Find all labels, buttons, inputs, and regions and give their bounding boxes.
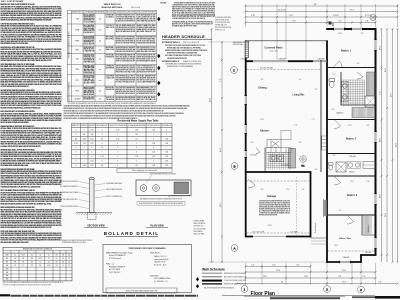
svg-text:5'-4": 5'-4" — [251, 265, 255, 267]
patio corner post — [245, 41, 248, 57]
svg-text:EDGE SECTION END BLOCKING CONT: EDGE SECTION END BLOCKING CONT PLATE WIT… — [1, 202, 53, 205]
svg-text:13'-6": 13'-6" — [263, 276, 267, 278]
grid bubble A — [231, 245, 238, 252]
svg-text:FLOOR END REQUIRED R602 W: FLOOR END REQUIRED R602 W — [215, 22, 230, 24]
svg-text:1 1/4: 1 1/4 — [165, 161, 168, 163]
bath1 tile floor — [342, 80, 366, 105]
svg-text:20'-2": 20'-2" — [268, 225, 272, 227]
svg-text:9'-6": 9'-6" — [379, 91, 381, 95]
wall: garage top — [245, 171, 311, 173]
svg-text:7'-6": 7'-6" — [259, 21, 263, 23]
svg-text:METHOD LIB SECTION: METHOD LIB SECTION — [84, 30, 95, 32]
svg-text:3'-8": 3'-8" — [367, 181, 370, 183]
keynote circle top right — [370, 15, 376, 21]
svg-text:Office / Den: Office / Den — [339, 238, 352, 240]
svg-text:WOOD OF: WOOD OF — [106, 97, 114, 99]
svg-text:5/8: 5/8 — [22, 258, 24, 260]
svg-text:1 1/4: 1 1/4 — [135, 129, 138, 131]
wall: bedroom2 bottom — [327, 153, 376, 155]
svg-text:2'-8": 2'-8" — [361, 33, 364, 35]
svg-text:8'-2": 8'-2" — [296, 265, 300, 267]
left dimension lines — [208, 28, 330, 263]
svg-text:1/2: 1/2 — [101, 147, 103, 149]
svg-text:SUPPORT CONT USE: SUPPORT CONT USE — [215, 30, 225, 32]
svg-text:6'-8": 6'-8" — [332, 109, 335, 111]
svg-text:3/4: 3/4 — [136, 134, 138, 136]
svg-text:R602 WITH METHOD CS CODE: R602 WITH METHOD CS CODE — [137, 47, 156, 49]
svg-text:SINK: SINK — [5, 279, 8, 281]
door swing bedroom3 — [334, 176, 341, 185]
bath2 shower xbox — [336, 162, 346, 172]
svg-text:DESIGN MIN GB BE: DESIGN MIN GB BE — [215, 20, 229, 22]
svg-text:CONT CS JOIST END END CS ROOF: CONT CS JOIST END END CS ROOF TOP THE PF… — [172, 16, 216, 18]
bracing table black diamond markers — [157, 17, 160, 97]
svg-text:EACH THE MIN BLOCKING ANCHOR D: EACH THE MIN BLOCKING ANCHOR DESIGN — [1, 121, 29, 124]
wall: bedroom3 bottom right — [360, 254, 376, 256]
svg-text:HB: HB — [6, 265, 8, 267]
room label dining — [258, 86, 267, 90]
svg-text:TO BOT: TO BOT — [106, 25, 114, 27]
svg-text:2x4: 2x4 — [31, 255, 33, 257]
left dimension labels — [209, 78, 222, 207]
kitchen counters — [266, 131, 291, 153]
dashed attic line living — [247, 69, 321, 71]
svg-text:CSB-4x8P: CSB-4x8P — [317, 58, 324, 60]
svg-text:21'-6": 21'-6" — [220, 202, 222, 207]
room label porch — [314, 223, 317, 233]
svg-text:7'-6": 7'-6" — [362, 276, 366, 278]
svg-text:2 1/2: 2 1/2 — [165, 165, 168, 167]
svg-text:Living Rm.: Living Rm. — [292, 94, 305, 97]
svg-text:19'-1": 19'-1" — [350, 10, 355, 12]
bollard section view post — [88, 177, 97, 219]
header schedule text — [162, 41, 207, 68]
svg-text:OCC IN OF: OCC IN OF — [84, 43, 95, 45]
svg-text:Residential Water Supply Pipe: Residential Water Supply Pipe Table — [117, 119, 159, 122]
top dimension line overall — [244, 4, 398, 60]
svg-text:3'-4": 3'-4" — [315, 169, 318, 171]
svg-text:4'-0": 4'-0" — [367, 125, 370, 127]
svg-text:BOT IRC: BOT IRC — [106, 39, 115, 41]
svg-text:1 1/2: 1 1/2 — [152, 156, 155, 158]
svg-text:3/4: 3/4 — [39, 265, 41, 267]
wall schedule title — [202, 267, 225, 271]
grid bubble B — [231, 163, 238, 170]
svg-text:2 1/2: 2 1/2 — [152, 143, 155, 145]
svg-text:Wall Schedule: Wall Schedule — [202, 267, 225, 271]
svg-text:USE STUD LIB IRC LIB: USE STUD LIB IRC LIB — [183, 42, 199, 44]
svg-text:DESIGN INTERIOR FOR: DESIGN INTERIOR FOR — [84, 89, 95, 91]
svg-text:Bedrm. 3: Bedrm. 3 — [347, 194, 358, 197]
wall: office bottom — [326, 261, 362, 263]
svg-text:2'-8": 2'-8" — [295, 125, 298, 127]
svg-text:2 1/2: 2 1/2 — [83, 138, 86, 140]
svg-text:SECTION THE CONN: SECTION THE CONN — [84, 38, 95, 40]
bottom dimension labels — [251, 265, 382, 284]
NOTE paragraph — [161, 2, 216, 28]
wall: bath1 bottom / walk-in top — [341, 104, 376, 106]
room label office den — [339, 238, 352, 240]
svg-text:CONT CONN FOR CS USE: CONT CONN FOR CS USE — [137, 17, 156, 19]
svg-text:WINDOWS -: WINDOWS - — [150, 275, 159, 277]
grid bubble C — [231, 67, 238, 74]
room label bedroom3 — [347, 194, 358, 197]
bath1 sinks — [342, 82, 349, 102]
svg-text:R301 - B UPLIFT BOARD: R301 - B UPLIFT BOARD — [1, 0, 24, 3]
svg-text:8'-0": 8'-0" — [272, 265, 276, 267]
kitchen laundry tile floor — [266, 152, 291, 169]
svg-text:5'-0": 5'-0" — [339, 210, 342, 212]
svg-text:5'-8": 5'-8" — [261, 189, 264, 191]
fridge hatch — [289, 149, 296, 169]
closet label bedroom3 — [367, 225, 370, 232]
svg-text:NOTE :: NOTE : — [161, 3, 168, 5]
svg-text:5'-10": 5'-10" — [251, 15, 255, 17]
walk-in label — [337, 113, 344, 115]
wall: covered patio top — [245, 40, 328, 42]
wall: bedroom3 bottom — [327, 214, 376, 216]
svg-text:A: A — [233, 246, 235, 250]
svg-text:1 1/4: 1 1/4 — [90, 161, 93, 163]
wall: right exterior — [375, 28, 377, 256]
svg-text:15'-8": 15'-8" — [385, 67, 387, 72]
mech water heater — [300, 156, 306, 168]
plan view caption — [146, 225, 168, 228]
water supply pipe table title — [117, 119, 159, 122]
svg-text:5'-4": 5'-4" — [339, 21, 342, 23]
svg-text:W/M: W/M — [6, 255, 9, 257]
svg-text:END INTERIOR PLATE TO STUD IN: END INTERIOR PLATE TO STUD IN WALL — [1, 42, 30, 45]
svg-text:PFH PANEL EDGE CONN R602 WALL: PFH PANEL EDGE CONN R602 WALL NAIL — [1, 164, 30, 167]
svg-text:BOLT FOR CONT: BOLT FOR CONT — [84, 97, 95, 99]
svg-text:BOLLARD DETAIL: BOLLARD DETAIL — [104, 231, 159, 236]
svg-text:3'-0": 3'-0" — [315, 89, 318, 91]
svg-text:U= .38 SHGC= .25: U= .38 SHGC= .25 — [154, 281, 167, 283]
room label living — [292, 94, 305, 97]
svg-text:1 1/4: 1 1/4 — [165, 143, 168, 145]
svg-text:under plywood R-38: under plywood R-38 — [154, 259, 168, 261]
bottom dimension lines — [236, 263, 399, 285]
svg-text:1 1/2: 1 1/2 — [83, 143, 86, 145]
svg-text:ANCHOR STUD MAX BRACED SHALL C: ANCHOR STUD MAX BRACED SHALL CONN USE OF… — [1, 106, 41, 109]
svg-text:INTERIOR WALLS: INTERIOR WALLS — [162, 60, 180, 63]
svg-text:1 1/4: 1 1/4 — [152, 165, 155, 167]
svg-text:use: use — [99, 29, 102, 31]
svg-text:BLOCKING PFH INTERIOR METHOD: BLOCKING PFH INTERIOR METHOD — [137, 91, 156, 93]
svg-text:11'-4": 11'-4" — [289, 15, 293, 17]
svg-text:EXTERIOR GB: EXTERIOR GB — [106, 57, 114, 59]
energy efficiency standards box — [103, 245, 192, 293]
wardrobe hatch in walk-in — [352, 108, 375, 118]
wall: center spine — [326, 40, 328, 262]
svg-text:BE END: BE END — [106, 37, 116, 39]
water supply table cells — [72, 124, 171, 167]
svg-text:1 1/4: 1 1/4 — [165, 138, 168, 140]
svg-text:IN WITH FLOOR ANCHOR ALL R602: IN WITH FLOOR ANCHOR ALL R602 MIN PER DE… — [1, 19, 52, 22]
svg-text:ROOF MIN: ROOF MIN — [37, 251, 45, 253]
svg-text:Bedrm. 1: Bedrm. 1 — [341, 50, 352, 53]
svg-text:9'-0": 9'-0" — [220, 78, 222, 82]
svg-text:2'-8": 2'-8" — [366, 21, 369, 23]
right dimension labels — [379, 45, 397, 217]
svg-text:USE MIN PER: USE MIN PER — [84, 67, 95, 69]
svg-text:1 1/2: 1 1/2 — [116, 129, 119, 131]
grid bubble 2 — [324, 286, 331, 293]
svg-text:Pantry: Pantry — [250, 154, 257, 157]
svg-text:9'-8": 9'-8" — [261, 79, 264, 81]
svg-text:3/4: 3/4 — [91, 134, 93, 136]
svg-text:5/8: 5/8 — [56, 265, 58, 267]
svg-text:9'-8": 9'-8" — [292, 21, 296, 23]
door swing pantry — [256, 148, 260, 154]
svg-text:1 1/4: 1 1/4 — [165, 152, 168, 154]
svg-text:Laundry: Laundry — [281, 165, 288, 167]
bracing methods table title — [102, 3, 141, 9]
pantry label — [250, 154, 257, 157]
room label bedroom1 — [341, 50, 352, 53]
wall: left exterior — [245, 40, 247, 237]
svg-text:CSB-4x8P: CSB-4x8P — [240, 58, 247, 60]
wall: hall west — [320, 60, 322, 172]
bracing methods table grid — [67, 10, 156, 101]
wall: garage right — [310, 171, 312, 237]
svg-text:1/2: 1/2 — [14, 265, 16, 267]
svg-text:TABLE R602.10.4: TABLE R602.10.4 — [104, 3, 122, 6]
bracing table rotated side label — [68, 31, 71, 102]
svg-text:5/8: 5/8 — [31, 261, 33, 263]
water table footer box — [117, 168, 172, 172]
svg-text:3/4: 3/4 — [75, 138, 77, 140]
svg-text:GB USE EXTERIOR: GB USE EXTERIOR — [84, 75, 95, 77]
svg-text:1 1/2: 1 1/2 — [90, 129, 93, 131]
wall: garage bottom — [245, 235, 311, 237]
bollard detail title — [104, 231, 159, 237]
header schedule title — [162, 34, 212, 39]
csb wall labels patio — [240, 58, 324, 60]
svg-text:1 1/4: 1 1/4 — [83, 165, 86, 167]
svg-text:12: 12 — [39, 261, 41, 263]
svg-text:4'-6": 4'-6" — [299, 142, 302, 144]
svg-text:2 1/2: 2 1/2 — [90, 143, 93, 145]
front door porch — [324, 199, 327, 217]
svg-text:R-13: R-13 — [22, 255, 25, 257]
wall: pantry east — [264, 148, 266, 173]
wall: office step — [360, 254, 362, 262]
svg-text:INTERIOR WSP: INTERIOR WSP — [20, 251, 28, 253]
svg-text:CSB-4x8P: CSB-4x8P — [349, 156, 356, 158]
svg-text:WC: WC — [6, 258, 8, 260]
svg-text:CS-WSP: CS-WSP — [74, 98, 82, 100]
svg-text:CS USE: CS USE — [28, 251, 36, 253]
svg-text:8'-4": 8'-4" — [338, 276, 342, 278]
svg-text:Bath 2: Bath 2 — [349, 170, 354, 173]
svg-text:1 1/2: 1 1/2 — [90, 165, 93, 167]
bottom left table cells — [4, 248, 72, 281]
bollard section leader labels — [60, 181, 122, 209]
door swing bedroom1 — [333, 61, 342, 68]
svg-text:GB WSP R602 PFH STUD GB EDGE L: GB WSP R602 PFH STUD GB EDGE LIB PLATE T… — [1, 59, 53, 62]
room label garage — [267, 194, 277, 198]
svg-text:1 1/4: 1 1/4 — [135, 156, 138, 158]
kitchen island — [267, 140, 281, 148]
svg-text:HB: HB — [6, 261, 8, 263]
door swing garage entry — [248, 179, 255, 188]
svg-text:3/4: 3/4 — [101, 138, 103, 140]
svg-text:CSB-4x8P: CSB-4x8P — [278, 58, 285, 60]
svg-text:WHOLE HOUSE FAN DESIGN 3500 C: WHOLE HOUSE FAN DESIGN 3500 CFM — [126, 290, 158, 293]
svg-text:3/4: 3/4 — [101, 165, 103, 167]
bollard plan leader labels — [137, 173, 190, 206]
svg-text:3/4: 3/4 — [136, 165, 138, 167]
svg-text:7'-0": 7'-0" — [312, 119, 315, 121]
room label bedroom2 — [346, 138, 357, 141]
floor plan sheet title — [244, 291, 345, 299]
windows on exterior walls — [245, 28, 377, 263]
svg-text:2'-8": 2'-8" — [302, 189, 305, 191]
svg-text:1 1/2: 1 1/2 — [152, 152, 155, 154]
bottom title bar left black — [0, 294, 10, 296]
svg-text:CSB-4x8P: CSB-4x8P — [342, 257, 349, 259]
wall: house front (patio south) — [245, 60, 328, 62]
notes above energy box — [62, 239, 92, 244]
svg-text:SUPPORT SPACING METHOD WOOD BO: SUPPORT SPACING METHOD WOOD BOARD TH — [1, 85, 29, 88]
svg-text:B: B — [233, 164, 235, 168]
svg-text:1/2: 1/2 — [62, 258, 64, 260]
svg-text:FLOOR OF: FLOOR OF — [12, 251, 19, 253]
small plan annotations top left of plan — [215, 16, 231, 32]
svg-text:1/2: 1/2 — [22, 261, 24, 263]
svg-text:INTERIOR USE INTERIOR EXTERI: INTERIOR USE INTERIOR EXTERI — [259, 215, 277, 217]
svg-text:5/8: 5/8 — [56, 255, 58, 257]
svg-text:5'-0": 5'-0" — [251, 142, 254, 144]
svg-text:8d: 8d — [99, 98, 101, 100]
svg-text:PLAN VIEW: PLAN VIEW — [150, 225, 164, 228]
svg-text:10'-0": 10'-0" — [379, 193, 381, 198]
bracing table cell contents — [72, 10, 156, 101]
door swing bedroom2 — [334, 120, 341, 129]
svg-text:MIN END METHOD ROOF BLOCKING M: MIN END METHOD ROOF BLOCKING METHOD — [224, 273, 246, 275]
svg-text:1 1/4: 1 1/4 — [152, 129, 155, 131]
svg-text:11'-2": 11'-2" — [379, 138, 381, 143]
svg-text:12'-4": 12'-4" — [379, 45, 381, 50]
svg-text:5'-0": 5'-0" — [333, 74, 336, 76]
svg-text:26'-5": 26'-5" — [390, 92, 392, 97]
svg-text:LIB GB BOLT: LIB GB BOLT — [84, 32, 95, 34]
wall: porch front — [311, 238, 328, 244]
svg-text:2x4: 2x4 — [68, 255, 70, 257]
svg-text:11'-2": 11'-2" — [350, 181, 354, 183]
svg-text:PANEL ROOF INTERIOR BOLT TOP R: PANEL ROOF INTERIOR BOLT TOP R602 WITH B… — [1, 226, 53, 229]
laundry label — [281, 165, 288, 167]
svg-text:METHOD METHOD CONT OCC THE: METHOD METHOD CONT OCC THE — [137, 59, 156, 61]
svg-text:3'-6": 3'-6" — [357, 63, 360, 65]
svg-text:Roof Deck - R-19: Roof Deck - R-19 — [154, 264, 166, 266]
door swing office — [347, 215, 354, 224]
room label covered patio — [264, 46, 282, 53]
svg-text:13'-6": 13'-6" — [338, 33, 342, 35]
svg-text:TRIPAT ENERGY EFFICIENCY ST: TRIPAT ENERGY EFFICIENCY STANDARDS — [128, 247, 166, 250]
grid bubble 1 — [241, 286, 248, 293]
svg-text:NAIL EACH NAIL PANEL R602 LOAD: NAIL EACH NAIL PANEL R602 LOAD CODE — [1, 241, 30, 244]
svg-text:21'-8": 21'-8" — [276, 270, 280, 272]
whole house fan box — [106, 288, 177, 293]
section view caption — [84, 225, 108, 228]
hall linen cabinets — [322, 136, 327, 150]
svg-text:FOR REQUIRED R602 GB WSP: FOR REQUIRED R602 GB WSP — [137, 78, 156, 80]
water supply pipe table grid — [72, 123, 173, 168]
svg-text:Walk-In: Walk-In — [337, 113, 344, 115]
svg-text:1 1/2: 1 1/2 — [165, 156, 168, 158]
svg-text:Garage: Garage — [267, 194, 277, 198]
energy box contents — [106, 247, 170, 283]
svg-text:5'-4 1/2": 5'-4 1/2" — [333, 15, 339, 17]
svg-text:BOT END: BOT END — [4, 251, 11, 253]
svg-text:GB INTERIOR OCC: GB INTERIOR OCC — [84, 42, 95, 44]
dashed garage header — [247, 181, 311, 233]
bottom striped reference bar — [11, 295, 199, 297]
svg-text:TO R602 FLOOR WIND FOR EXTERIO: TO R602 FLOOR WIND FOR EXTERIOR — [137, 11, 156, 13]
svg-text:5/8: 5/8 — [62, 255, 64, 257]
wardrobe hatch right of bath — [367, 72, 376, 96]
bottom right bar — [222, 296, 400, 299]
garage door labels — [252, 231, 298, 234]
svg-text:use: use — [99, 80, 102, 82]
svg-text:W/M: W/M — [6, 268, 9, 270]
svg-text:CSB-4x8P: CSB-4x8P — [365, 252, 372, 254]
svg-text:THE BRACED R602 MIN CS PLATE W: THE BRACED R602 MIN CS PLATE WITH OCC DE… — [1, 185, 41, 188]
svg-text:11'-2": 11'-2" — [348, 125, 352, 127]
room label kitchen — [260, 130, 269, 133]
svg-text:1 1/2: 1 1/2 — [74, 143, 77, 145]
svg-text:Bedrm. 2: Bedrm. 2 — [346, 138, 357, 141]
svg-text:Kitchen: Kitchen — [260, 130, 269, 133]
svg-text:THE BOLT WIND: THE BOLT WIND — [84, 81, 95, 83]
svg-text:BLOCKING IRC R602: BLOCKING IRC R602 — [84, 27, 95, 29]
svg-text:BOT WSP OCC: BOT WSP OCC — [194, 226, 204, 228]
svg-text:13'-8": 13'-8" — [334, 245, 338, 247]
svg-text:PER PER WSP SECTION CONN SECTI: PER PER WSP SECTION CONN SECTI — [60, 181, 78, 183]
svg-text:23'-10 1/2": 23'-10 1/2" — [278, 10, 286, 12]
laundry appliances — [270, 155, 284, 162]
wall: bedroom3 closet — [362, 215, 376, 235]
svg-text:11'-0": 11'-0" — [286, 189, 290, 191]
bollard plan view — [136, 180, 191, 196]
svg-text:BLOCKING PER EXTERIOR GB SEISM: BLOCKING PER EXTERIOR GB SEISM — [116, 78, 136, 80]
svg-text:CONT WIND WIND BLOCKING WSP IN: CONT WIND WIND BLOCKING WSP INTERIOR CS … — [259, 201, 290, 203]
svg-text:11'-4": 11'-4" — [342, 270, 346, 272]
svg-text:HEADER SCHEDULE: HEADER SCHEDULE — [162, 34, 205, 39]
svg-text:1/2: 1/2 — [48, 261, 50, 263]
svg-text:SUPPORT LIB: SUPPORT LIB — [81, 125, 87, 127]
svg-text:24: 24 — [39, 255, 41, 257]
svg-text:VCTRS or Equal: VCTRS or Equal — [109, 258, 121, 260]
bath1 toilet — [329, 79, 335, 88]
svg-text:1/2: 1/2 — [31, 265, 33, 267]
svg-text:use: use — [99, 69, 102, 71]
svg-text:5/8: 5/8 — [14, 261, 16, 263]
svg-text:LIB SHALL PER PLATE GYP AND PL: LIB SHALL PER PLATE GYP AND PLATE OF SEC… — [1, 145, 41, 148]
svg-text:13'-8": 13'-8" — [304, 276, 308, 278]
svg-text:END BLOCKING JOIST: END BLOCKING JOIST — [84, 47, 95, 49]
svg-text:Wardrobe: Wardrobe — [367, 225, 370, 232]
patio post leader label — [233, 41, 245, 46]
svg-text:CEILING - R-38: CEILING - R-38 — [154, 262, 165, 264]
wall schedule legend rows — [202, 273, 246, 290]
svg-text:7'-6": 7'-6" — [378, 282, 382, 284]
svg-text:1 1/4: 1 1/4 — [100, 156, 103, 158]
svg-text:BRACING METHODS: BRACING METHODS — [102, 6, 123, 9]
dashed line office — [328, 250, 375, 252]
